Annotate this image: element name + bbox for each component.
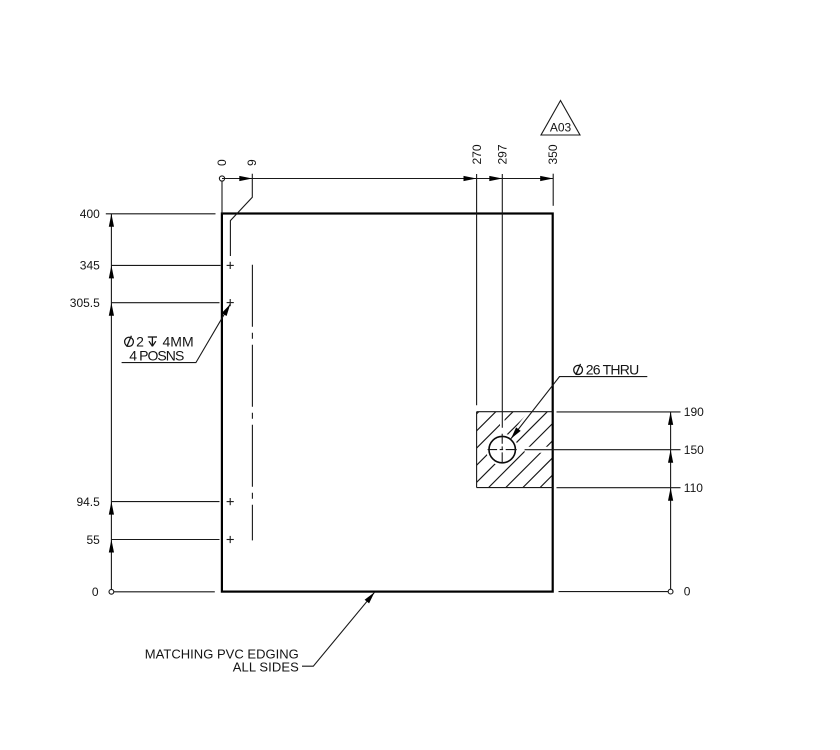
arrow at 350 tick <box>540 176 553 181</box>
arrow at 9 tick <box>239 176 252 181</box>
white trim corridor along 150 dim line <box>525 447 554 453</box>
top dimension line <box>222 178 553 180</box>
white trim corridor along hole leader <box>509 376 561 443</box>
leader pvc note arrowhead <box>365 592 375 603</box>
svg-text:350: 350 <box>546 144 560 164</box>
revision triangle A03 <box>541 101 580 136</box>
dim line 345 <box>111 264 220 266</box>
top origin circle <box>219 176 224 181</box>
arrow at 270 tick <box>464 176 477 181</box>
right dimension vertical line <box>670 412 672 589</box>
hole crosshair vertical <box>501 434 503 464</box>
dim line 150 <box>525 449 681 451</box>
dim line 0 right <box>559 591 669 593</box>
plus marker 94.5 <box>227 498 234 505</box>
svg-text:94.5: 94.5 <box>76 495 100 509</box>
leader hole note arrowhead <box>511 427 521 438</box>
dim line 110 <box>557 487 681 489</box>
svg-text:9: 9 <box>245 159 259 166</box>
svg-text:ALL SIDES: ALL SIDES <box>233 660 299 675</box>
dim line 305.5 <box>111 302 219 304</box>
9 tick with jog <box>230 174 252 256</box>
hatch box bottom edge <box>477 487 553 489</box>
right arrow 150 <box>668 450 673 463</box>
svg-text:270: 270 <box>470 144 484 164</box>
extension below top origin <box>221 181 223 213</box>
dim line 0 left <box>114 591 215 593</box>
right arrow 190 <box>668 412 673 425</box>
plus marker 305.5 <box>227 299 234 306</box>
diameter symbol drill note <box>125 336 134 347</box>
right origin circle <box>668 589 673 594</box>
left origin circle <box>109 589 114 594</box>
svg-text:0: 0 <box>684 584 691 598</box>
svg-text:4 POSNS: 4 POSNS <box>129 348 184 364</box>
plus marker 55 <box>227 536 234 543</box>
svg-text:150: 150 <box>684 443 704 457</box>
hatch box left edge <box>476 412 478 488</box>
leader pvc note <box>302 592 375 666</box>
svg-text:110: 110 <box>684 481 703 495</box>
left arrow 94.5 <box>109 502 114 515</box>
270 extension line <box>476 174 478 405</box>
svg-text:190: 190 <box>684 405 704 419</box>
dim line 400 <box>106 213 216 215</box>
leader drill note arrowhead <box>222 304 231 316</box>
svg-text:A03: A03 <box>550 121 572 135</box>
left arrow 55 <box>109 540 114 553</box>
leader drill note underline <box>122 304 231 362</box>
white trim corridor along 297 extension line <box>500 411 505 428</box>
left dimension vertical line <box>110 214 112 590</box>
svg-text:0: 0 <box>215 159 229 166</box>
hole crosshair horizontal <box>488 449 517 451</box>
hole circle <box>489 436 515 462</box>
svg-text:26 THRU: 26 THRU <box>586 361 640 377</box>
svg-text:305.5: 305.5 <box>70 296 100 310</box>
svg-text:400: 400 <box>80 207 100 221</box>
centerline dash-dot <box>251 265 253 541</box>
depth symbol <box>148 337 157 346</box>
plus marker 345 <box>227 262 234 269</box>
dim line 55 <box>111 539 219 541</box>
350 extension line <box>552 174 554 206</box>
svg-text:297: 297 <box>496 144 510 164</box>
panel outline <box>222 214 553 592</box>
svg-text:55: 55 <box>86 533 100 547</box>
left arrow 345 <box>109 265 114 278</box>
left arrow 305.5 <box>109 303 114 316</box>
dim line 190 <box>557 411 681 413</box>
arrow at 297 tick <box>489 176 502 181</box>
right arrow 110 <box>668 488 673 501</box>
leader hole note <box>511 377 647 439</box>
297 extension line <box>501 174 503 428</box>
svg-text:345: 345 <box>80 259 100 273</box>
svg-text:0: 0 <box>92 585 99 599</box>
hatch lines <box>477 412 553 488</box>
diameter symbol hole note <box>574 364 583 375</box>
left arrow 400 <box>109 214 114 227</box>
dim line 94.5 <box>111 501 219 503</box>
hatch box top edge <box>477 411 553 413</box>
